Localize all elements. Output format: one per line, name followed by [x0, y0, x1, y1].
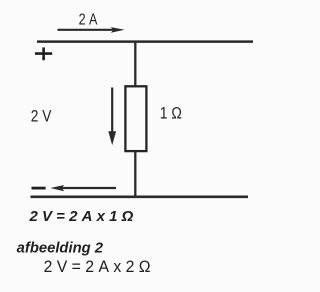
svg-text:afbeelding 2: afbeelding 2	[17, 241, 103, 257]
label 2 A (current value, top)	[79, 12, 98, 29]
current arrow (bottom, pointing left)	[50, 185, 116, 191]
svg-text:2 A: 2 A	[79, 12, 98, 29]
plus terminal (+)	[35, 47, 52, 60]
wire (top horizontal)	[37, 40, 253, 43]
equation 2V = 2A x 2 ohm	[44, 258, 151, 276]
label 2 V (source voltage)	[31, 107, 52, 126]
caption afbeelding 2 (bold italic)	[17, 241, 103, 257]
wire (vertical, top wire to resistor)	[134, 42, 136, 87]
current arrow I (top, pointing right)	[58, 27, 125, 33]
svg-text:2 V: 2 V	[31, 107, 52, 126]
svg-text:1 Ω: 1 Ω	[160, 103, 182, 122]
equation 2V = 2A x 1 ohm (bold italic)	[29, 208, 134, 225]
wire (bottom horizontal)	[31, 195, 249, 198]
minus terminal (-)	[32, 187, 46, 190]
svg-text:2 V = 2 A x 2 Ω: 2 V = 2 A x 2 Ω	[44, 258, 151, 276]
value label 1 ohm	[160, 103, 182, 122]
current arrow through resistor (pointing down)	[108, 88, 116, 146]
resistor R1 1 ohm (rectangle body)	[125, 86, 146, 151]
svg-text:2 V = 2 A x 1 Ω: 2 V = 2 A x 1 Ω	[29, 208, 134, 225]
wire (vertical, resistor to bottom wire)	[134, 151, 136, 197]
